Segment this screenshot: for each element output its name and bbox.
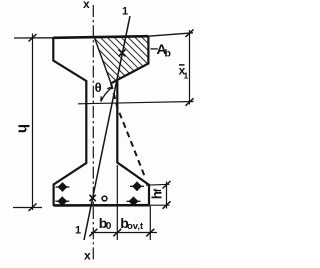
centerline axis x bbox=[92, 5, 94, 260]
x marker centroid of A_b bbox=[119, 50, 126, 57]
svg-text:0: 0 bbox=[106, 221, 112, 232]
beam outline left side bbox=[53, 37, 86, 206]
point o bbox=[102, 196, 107, 201]
rebar diamond bottom-right bbox=[127, 197, 141, 206]
svg-text:h: h bbox=[15, 124, 32, 133]
extension line flange right for bov,t bbox=[149, 206, 151, 240]
dimension h bbox=[32, 34, 34, 211]
hatch area A_b bbox=[94, 37, 149, 84]
top edge extension right (x1) bbox=[148, 33, 193, 36]
svg-text:1: 1 bbox=[122, 6, 128, 18]
dimension hf top extension bbox=[146, 183, 170, 186]
dimension x1 bbox=[189, 30, 191, 105]
beam top edge bbox=[53, 36, 148, 38]
svg-text:1: 1 bbox=[75, 225, 81, 237]
slash ticks bbox=[89, 229, 97, 237]
svg-text:θ: θ bbox=[95, 80, 102, 95]
rebar diamond bottom-left bbox=[55, 197, 69, 206]
label hf (rotated, reads upward) bbox=[149, 188, 164, 199]
beam bottom edge bbox=[54, 204, 150, 207]
svg-text:ov,t: ov,t bbox=[127, 221, 144, 232]
leader line A_b bbox=[151, 48, 158, 50]
section line 1-1 bbox=[84, 16, 130, 240]
dimension line b0 / bov,t bbox=[91, 232, 157, 234]
svg-text:x: x bbox=[84, 249, 91, 263]
dashed continuation to bottom flange corner bbox=[111, 83, 145, 176]
top edge extension left (h) bbox=[14, 37, 53, 39]
extension line web right for b0 bbox=[116, 165, 118, 240]
dimension hf line bbox=[166, 182, 168, 209]
X marker at axis intersection bbox=[89, 195, 95, 201]
label h (rotated, reads downward) bbox=[15, 124, 32, 133]
inclined line from top of axis: solid within hatch bbox=[94, 37, 111, 84]
beam outline right side bbox=[111, 36, 149, 205]
svg-text:1: 1 bbox=[184, 71, 189, 81]
bottom edge extension left (h) bbox=[13, 207, 42, 209]
svg-text:b: b bbox=[165, 48, 171, 60]
rebar diamond top-left bbox=[56, 182, 70, 191]
rebar diamond top-right bbox=[130, 182, 144, 191]
svg-text:x: x bbox=[83, 0, 90, 11]
extension line for x1 bottom bbox=[78, 102, 194, 104]
theta angle arc with arrow bbox=[101, 87, 113, 102]
bottom edge extension right (hf) bbox=[150, 204, 170, 206]
